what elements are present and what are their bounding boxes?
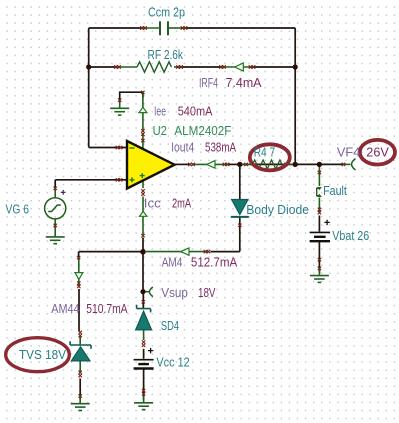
svg-text:ALM2402F: ALM2402F bbox=[174, 123, 231, 138]
wire: Iee ammeter body bbox=[142, 93, 144, 131]
resistor R4 bbox=[253, 160, 283, 169]
current arrow IRF4 bbox=[235, 63, 244, 71]
svg-text:Vbat 26: Vbat 26 bbox=[332, 228, 369, 243]
svg-text:540mA: 540mA bbox=[178, 103, 213, 118]
node: output node bbox=[237, 162, 242, 167]
voltage pin VF4 bbox=[352, 159, 356, 170]
capacitor Ccm bbox=[160, 21, 168, 35]
plus mark VG bbox=[61, 190, 66, 195]
node: Icc / AM4 junction bbox=[140, 249, 146, 255]
wire: opamp top pin corner bbox=[120, 92, 143, 101]
svg-text:Body Diode: Body Diode bbox=[246, 202, 309, 217]
wire: RF leads bbox=[117, 66, 137, 68]
svg-text:R4 7: R4 7 bbox=[254, 144, 275, 159]
annotation ellipse 26V bbox=[360, 140, 395, 165]
wire: AM4 net left to left corner bbox=[79, 251, 143, 253]
battery Vcc bbox=[134, 360, 154, 369]
wire: opamp output to R4 bbox=[175, 163, 191, 165]
svg-text:Iee: Iee bbox=[154, 103, 166, 118]
wire: IRF4 to right vertical bbox=[253, 66, 296, 68]
ground (VG) bbox=[46, 237, 65, 244]
wire: TVS top lead bbox=[79, 337, 81, 345]
wire: VG bottom lead bbox=[54, 219, 56, 237]
svg-text:Fault: Fault bbox=[323, 183, 347, 198]
diode SD4 (schottky, teal) bbox=[136, 305, 152, 330]
op-amp U2 bbox=[127, 141, 175, 189]
wire: Vcc battery to ground bbox=[143, 369, 145, 401]
wire: output node to VF4/Fault bbox=[240, 163, 343, 165]
wire: inverting input bbox=[89, 147, 127, 149]
node: feedback left junction bbox=[86, 64, 91, 69]
wire: AM4 ammeter body bbox=[146, 251, 209, 253]
svg-text:IRF4: IRF4 bbox=[199, 75, 218, 90]
ground (Vcc) bbox=[134, 403, 153, 410]
current arrow Icc bbox=[140, 211, 147, 216]
wire: Ccm left lead bbox=[143, 27, 159, 29]
wire: fault lower lead bbox=[318, 198, 320, 214]
wire: opamp ground stub lead bbox=[119, 101, 121, 108]
svg-text:RF 2.6k: RF 2.6k bbox=[148, 47, 184, 62]
wire: Ccm top net left segment bbox=[89, 27, 143, 29]
fault switch bbox=[317, 188, 321, 195]
wire: SD4 bottom lead bbox=[143, 330, 145, 340]
current arrow AM44 bbox=[75, 273, 83, 280]
node: fault branch bbox=[317, 162, 322, 167]
svg-text:U2: U2 bbox=[153, 123, 167, 138]
body diode D (teal) bbox=[231, 200, 249, 217]
ground (op-amp) bbox=[110, 108, 129, 115]
wire: TVS ground lead bbox=[79, 396, 81, 404]
svg-text:Ccm 2p: Ccm 2p bbox=[148, 5, 185, 20]
node: Vsup junction bbox=[140, 289, 145, 294]
svg-text:7.4mA: 7.4mA bbox=[226, 75, 262, 90]
wire: opamp top pin lead bbox=[142, 134, 144, 149]
svg-text:AM4: AM4 bbox=[162, 255, 183, 270]
wire: R4 leads bbox=[241, 163, 295, 165]
wire: body diode vertical bottom to AM4 corner bbox=[239, 218, 241, 252]
wire: Vcc ground lead bbox=[143, 396, 145, 403]
wire: Iout4 ammeter body bbox=[192, 163, 228, 165]
svg-text:18V: 18V bbox=[198, 285, 216, 300]
plus mark Vcc bbox=[148, 348, 153, 353]
wire: Icc ammeter body bbox=[142, 197, 144, 236]
svg-text:2mA: 2mA bbox=[172, 196, 191, 211]
wire: left corner down (AM44 top) bbox=[78, 252, 80, 258]
voltage source VG bbox=[45, 198, 66, 219]
svg-text:510.7mA: 510.7mA bbox=[86, 301, 128, 316]
wire: right feedback vertical bbox=[294, 28, 296, 164]
node: feedback right junction bbox=[293, 64, 298, 69]
svg-text:Vsup: Vsup bbox=[161, 285, 188, 300]
annotation ellipse R4 bbox=[250, 144, 290, 170]
wire: VF4 pin lead bbox=[343, 163, 351, 165]
wire: TVS to ground bbox=[79, 379, 81, 401]
wire: Icc lower black bbox=[142, 238, 144, 292]
wire: TVS bottom lead bbox=[79, 361, 81, 373]
ground (TVS) bbox=[71, 404, 90, 411]
wire: Vbat to ground bbox=[318, 242, 320, 274]
current arrow AM4 bbox=[181, 248, 189, 255]
wire: Ccm top net right segment bbox=[185, 27, 295, 29]
ground (Vbat) bbox=[310, 276, 329, 283]
wire: Ccm right lead bbox=[169, 27, 185, 29]
svg-text:AM44: AM44 bbox=[51, 301, 79, 316]
wire: left feedback vertical bbox=[88, 28, 90, 148]
wire: body diode vertical top bbox=[239, 164, 241, 199]
diode TVS (teal) bbox=[70, 341, 91, 361]
svg-text:Iout4: Iout4 bbox=[171, 139, 194, 154]
wire: SD4 to Vcc battery bbox=[143, 349, 145, 359]
svg-text:VF4: VF4 bbox=[337, 144, 360, 159]
wire: fault switch lower to Vbat bbox=[318, 216, 320, 232]
wire: non-inverting input bbox=[55, 179, 127, 181]
svg-text:VG 6: VG 6 bbox=[6, 202, 29, 217]
wire: VG top lead bbox=[54, 188, 56, 198]
svg-text:Vcc 12: Vcc 12 bbox=[156, 354, 189, 369]
svg-text:SD4: SD4 bbox=[161, 318, 179, 333]
battery Vbat bbox=[310, 232, 330, 241]
svg-text:538mA: 538mA bbox=[205, 139, 236, 154]
node: R4 output / feedback bbox=[293, 162, 298, 167]
resistor RF bbox=[137, 62, 171, 72]
wire: opamp bottom pin lead bbox=[142, 181, 144, 188]
wire: RF to IRF4 ammeter bbox=[180, 66, 222, 68]
wire: Vsup pin lead bbox=[143, 291, 149, 293]
wire: RF net left bbox=[89, 66, 118, 68]
wire: Vsup to SD4 bbox=[142, 294, 144, 308]
voltage pin Vsup bbox=[149, 287, 152, 297]
wire: IRF4 ammeter body bbox=[222, 66, 253, 68]
svg-text:TVS 18V: TVS 18V bbox=[19, 347, 66, 362]
wire: VG top corner stub bbox=[54, 180, 56, 188]
current arrow Iout4 bbox=[207, 161, 215, 169]
current arrow Iee bbox=[139, 107, 147, 112]
annotation ellipse TVS bbox=[6, 338, 70, 372]
wire: AM4 net right bbox=[211, 251, 240, 253]
svg-text:512.7mA: 512.7mA bbox=[191, 255, 238, 270]
svg-text:Icc: Icc bbox=[144, 196, 161, 211]
pin cross marks bbox=[54, 26, 346, 397]
svg-text:26V: 26V bbox=[366, 144, 389, 159]
wire: AM44 to TVS bbox=[78, 289, 80, 332]
wire: AM44 ammeter body bbox=[78, 258, 80, 288]
wire: fault upper lead bbox=[318, 166, 320, 186]
wire: Vbat bottom lead bbox=[318, 269, 320, 276]
plus mark Vbat bbox=[324, 220, 329, 225]
